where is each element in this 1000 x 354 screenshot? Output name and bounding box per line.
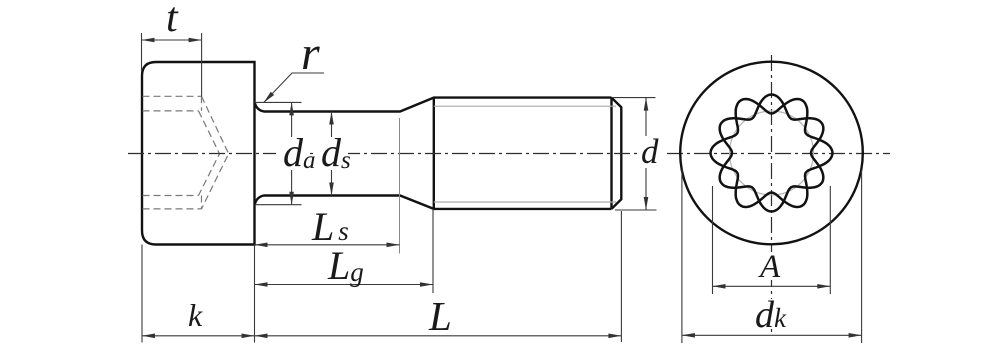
svg-text:d: d [641,132,659,171]
label A [759,252,783,280]
torx profile outer [720,95,824,212]
dimension t line [142,39,202,41]
head outer circle [680,62,863,245]
dimension da line top [291,102,293,137]
centerline circle vertical [771,55,773,332]
dimension Lg extension [432,209,434,293]
torx profile inner [711,99,833,207]
hidden socket cone inner [199,111,220,196]
centerline circle horizontal [667,153,890,155]
dimension ds line bottom [331,170,333,196]
svg-text:L: L [428,293,452,339]
dimension dk extension left [681,170,683,343]
dimension k extension left [141,245,143,343]
hidden socket bottom wall top [201,96,203,111]
dimension da extension bottom [255,204,302,206]
dimension Ls extension [399,118,401,254]
shared extension under head right edge [254,245,256,343]
dimension t extension left [141,33,143,72]
dimension A extension left [712,186,714,294]
thread start line [433,98,435,209]
hidden socket outer bottom line [143,208,202,210]
dimension ds line top [331,112,333,138]
dimension A line [713,285,831,287]
dimension k line [142,335,255,337]
dimension d extension top [612,97,656,99]
dimension da line bottom [291,170,293,205]
svg-text:t: t [166,0,179,41]
svg-text:r: r [301,27,320,80]
svg-text:k: k [188,297,203,333]
centerline left view [128,153,638,155]
hidden socket bottom wall bottom [201,196,203,209]
thread minor diameter line top [434,105,616,107]
leader r [264,73,325,103]
dimension d extension bottom [615,209,657,211]
dimension dk extension right [861,170,863,343]
label dk [752,299,788,329]
hidden socket outer top line [143,95,202,97]
thread end tip outline [612,98,622,209]
hidden socket inner top line [143,110,199,112]
thread end chamfer line [610,98,612,209]
dimension Ls line [255,244,400,246]
dimension A extension right [829,186,831,294]
label ds [317,138,348,169]
dimension L line [255,335,622,337]
dimension d line bottom [645,168,647,210]
svg-text:A: A [758,249,781,285]
hidden socket cone outer [202,96,229,209]
dimension d line top [645,98,647,136]
dimension t extension right [201,33,203,96]
hidden socket inner bottom line [143,195,199,197]
screw head outline [142,62,255,245]
dimension Lg line [255,284,434,286]
thread minor diameter line bottom [434,201,616,203]
socket bottom circle [730,111,814,195]
dimension dk line [682,334,862,336]
label da [276,138,310,169]
fillet and shank bottom edge [255,196,612,209]
dimension da extension top [255,101,302,103]
dimension L extension right [620,211,622,342]
fillet and shank top edge [255,98,612,112]
